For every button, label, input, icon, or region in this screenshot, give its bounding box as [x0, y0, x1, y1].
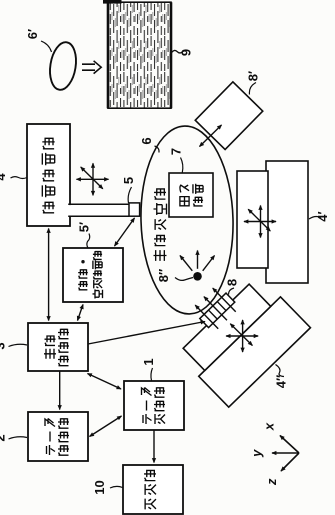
wire 3-2 arrow [59, 371, 61, 410]
box 1 データ処理部 [124, 381, 184, 430]
text 出力調整部 (line2) [93, 251, 103, 298]
sensor body 4' rect B [266, 161, 308, 283]
svg-text:3: 3 [0, 342, 8, 349]
beam arrows through strip 8 [195, 288, 235, 329]
box 2 データ格納部 [28, 412, 88, 461]
motion star on 4'' [226, 320, 258, 352]
svg-text:6′: 6′ [25, 29, 40, 39]
ellipse 6' (pre-transform object) [47, 40, 79, 91]
double arrow 8'-object [200, 125, 222, 147]
text 関心 (line1) [180, 185, 189, 206]
text データ (line1) [142, 388, 152, 425]
motion star near stage [77, 163, 109, 195]
text 駆動・ (line1) [78, 260, 88, 290]
svg-text:7: 7 [169, 148, 184, 155]
text 領域 (line2) [193, 184, 203, 206]
box 4 位置調整部 [27, 124, 70, 226]
svg-text:8: 8 [225, 279, 240, 286]
sensor lens 4' rect A [237, 171, 268, 268]
text データ (line1) [45, 419, 55, 456]
box 10 表示部 [123, 465, 183, 514]
stem / holder 5 (arm of stage) [68, 205, 129, 215]
text 制御部 (line2) [58, 329, 69, 366]
collimator strip 8 [200, 293, 235, 328]
box 5' 駆動・出力調整部 [63, 248, 123, 302]
svg-text:y: y [249, 449, 264, 458]
text 計測 (line1) [44, 335, 56, 358]
wire 5-5' double arrow [115, 218, 135, 246]
double-line arrow (transform) [82, 61, 101, 74]
svg-text:x: x [262, 422, 277, 431]
svg-text:5: 5 [121, 177, 136, 184]
probe assembly 4'' [161, 258, 310, 407]
svg-text:8″: 8″ [156, 269, 171, 282]
wire 1-10 arrow [153, 430, 155, 463]
text 位置調整部 [42, 138, 54, 213]
svg-text:4: 4 [0, 173, 8, 181]
svg-text:4″: 4″ [274, 375, 289, 388]
holder cap [129, 203, 140, 216]
text 処理部 (line2) [154, 387, 165, 424]
svg-text:10: 10 [92, 480, 107, 494]
text 格納部 (line2) [58, 418, 69, 455]
wire 3-1 double arrow [88, 374, 122, 390]
box 7 関心領域 [169, 173, 213, 217]
wire 2-1 double arrow [90, 416, 122, 437]
box 3 計測制御部 [28, 323, 88, 371]
detector 8' rotated rect [195, 82, 263, 150]
svg-text:1: 1 [141, 358, 156, 365]
svg-text:8′: 8′ [246, 71, 261, 81]
wire 3-8 long arrow [88, 322, 205, 345]
wire 4-3 double arrow [48, 229, 50, 321]
measurement object ellipse 6 (計測対象物) [139, 125, 236, 315]
hatched rect 9 (scan image) [108, 2, 171, 108]
text 表示部 [144, 470, 156, 510]
svg-text:z: z [264, 478, 279, 486]
svg-text:2: 2 [0, 434, 8, 441]
svg-text:6: 6 [139, 137, 154, 144]
svg-text:5′: 5′ [77, 222, 92, 232]
coordinate axes x y z [272, 436, 299, 472]
thick crop bar top [103, 0, 122, 4]
wire 5'-3 double arrow [78, 305, 84, 321]
point 8'' [193, 272, 202, 281]
motion star on 4' [244, 206, 276, 238]
text 計測対象物 [154, 188, 167, 261]
